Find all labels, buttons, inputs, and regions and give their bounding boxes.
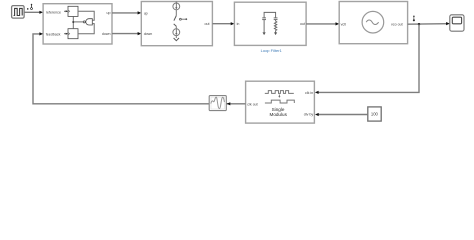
- single modulus label: [270, 107, 288, 117]
- charge pump icon: switch: [174, 10, 188, 29]
- svg-text:up: up: [144, 12, 148, 16]
- wire constant to div by: [315, 113, 368, 116]
- wire PFD down to charge pump: [112, 32, 141, 35]
- charge pump block: [141, 2, 212, 46]
- loop filter icon: capacitor C2 + resistor R branch: [274, 18, 278, 35]
- svg-text:clk in: clk in: [305, 91, 313, 95]
- NAND gate (mirrored, output to left): [73, 19, 92, 25]
- wire pulse generator to reference: [24, 11, 43, 14]
- svg-text:Loop Filter1: Loop Filter1: [261, 48, 283, 53]
- wire charge pump out to loop filter: [212, 22, 234, 25]
- PFD flip-flop FF2: [68, 29, 78, 39]
- svg-text:100: 100: [371, 112, 379, 117]
- svg-text:up: up: [107, 11, 111, 15]
- svg-text:Modulus: Modulus: [270, 112, 288, 117]
- VCO block: [339, 2, 407, 44]
- pulse generator block: [12, 6, 25, 19]
- loop filter icon: capacitor C1 branch: [262, 18, 266, 35]
- wire PFD up to charge pump: [112, 11, 141, 14]
- single modulus icon: fast clock waveform: [265, 91, 294, 94]
- single modulus icon: divided clock waveform: [265, 100, 294, 103]
- svg-text:vctl: vctl: [341, 22, 347, 26]
- charge pump icon: bottom current source: [173, 29, 180, 38]
- svg-text:div by: div by: [304, 113, 314, 117]
- arrow into FF2: [64, 33, 68, 35]
- scope block: [209, 96, 226, 111]
- display block (top right): [450, 15, 464, 31]
- PFD block (phase frequency detector): [43, 4, 112, 44]
- svg-text:out: out: [300, 22, 305, 26]
- constant block 100: [368, 107, 381, 121]
- svg-text:clk out: clk out: [247, 102, 257, 106]
- wire VCO out to display, with junction: [408, 22, 450, 25]
- single modulus prescaler block: [246, 81, 315, 123]
- arrow into FF1: [64, 10, 68, 12]
- loop filter icon: top connecting wire: [264, 12, 276, 17]
- vertical link between FF1 and FF2 with junction: [72, 16, 74, 28]
- svg-text:feedback: feedback: [46, 33, 61, 37]
- charge pump icon: top current source: [173, 2, 180, 10]
- svg-text:in: in: [237, 22, 240, 26]
- feedback wire: clk out to scope and PFD feedback: [33, 32, 246, 104]
- PFD flip-flop FF1: [68, 6, 78, 16]
- svg-text:down: down: [144, 32, 153, 36]
- feedback wire: junction down to clk in: [315, 24, 419, 94]
- svg-text:out: out: [205, 22, 210, 26]
- logging badge near pulse generator: [27, 4, 32, 10]
- svg-text:down: down: [102, 32, 111, 36]
- FF2 output loop wire to NAND input: [78, 24, 94, 34]
- single modulus icon: divide arrow: [278, 95, 280, 98]
- FF1 output loop wire to NAND input: [78, 11, 94, 20]
- arrow into scope right side: [227, 102, 231, 105]
- logging badge on vco out wire: [413, 15, 415, 21]
- svg-text:vco out: vco out: [391, 22, 403, 26]
- loop filter block: [234, 2, 306, 45]
- charge pump icon: ground arrow: [174, 38, 179, 41]
- svg-text:reference: reference: [46, 11, 61, 15]
- wire loop filter out to VCO: [306, 22, 339, 25]
- VCO icon: sine circle: [362, 11, 384, 33]
